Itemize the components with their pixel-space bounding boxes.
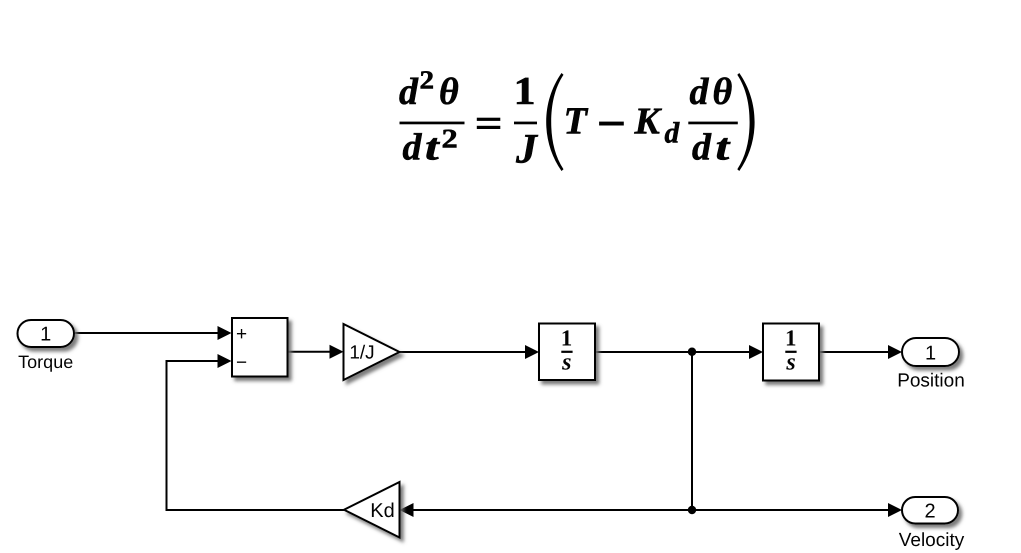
svg-text:1: 1 bbox=[514, 69, 536, 113]
wire junction to gain Kd bbox=[400, 503, 693, 517]
wire sum to gain 1/J bbox=[288, 345, 344, 359]
equals sign bbox=[477, 118, 501, 129]
svg-text:−: − bbox=[236, 352, 247, 373]
outport 2 block bbox=[902, 497, 958, 524]
svg-text:Kd: Kd bbox=[370, 500, 394, 522]
wire junction down bbox=[691, 352, 693, 510]
svg-text:s: s bbox=[561, 350, 571, 376]
svg-text:1: 1 bbox=[785, 326, 797, 351]
gain 1/J block bbox=[344, 324, 400, 380]
svg-text:2: 2 bbox=[442, 123, 458, 153]
sum block bbox=[232, 318, 288, 377]
integrator 2 block bbox=[763, 324, 819, 381]
svg-text:Torque: Torque bbox=[18, 352, 73, 372]
svg-text:+: + bbox=[236, 324, 247, 345]
svg-text:2: 2 bbox=[924, 501, 935, 523]
svg-text:d: d bbox=[403, 126, 423, 168]
wire integrator 2 to outport Position bbox=[819, 345, 902, 359]
wire gain 1/J to integrator 1 bbox=[400, 345, 540, 359]
wire integrator 1 to integrator 2 bbox=[595, 345, 763, 359]
svg-text:1: 1 bbox=[561, 326, 573, 351]
fraction 1/J bbox=[514, 69, 540, 172]
svg-text:1: 1 bbox=[925, 342, 936, 364]
svg-text:d: d bbox=[692, 126, 712, 168]
svg-text:Velocity: Velocity bbox=[899, 530, 965, 551]
wire gain Kd to sum minus bbox=[167, 354, 345, 510]
gain Kd block bbox=[344, 482, 400, 538]
svg-text:2: 2 bbox=[420, 66, 435, 95]
right parenthesis bbox=[737, 73, 754, 171]
outport 1 block bbox=[902, 338, 959, 366]
svg-text:d: d bbox=[665, 117, 681, 149]
svg-text:1: 1 bbox=[40, 324, 51, 346]
svg-text:θ: θ bbox=[439, 71, 459, 113]
svg-text:t: t bbox=[425, 126, 441, 168]
fraction d2theta/dt2 bbox=[399, 66, 465, 169]
svg-text:θ: θ bbox=[713, 71, 733, 113]
svg-text:T: T bbox=[564, 101, 589, 143]
wire junction to outport Velocity bbox=[692, 503, 902, 517]
junction dot top bbox=[688, 348, 696, 356]
equation d2theta/dt2 = (1/J)(T - Kd dtheta/dt) bbox=[399, 66, 755, 173]
junction dot bottom bbox=[688, 506, 696, 514]
K subscript d bbox=[634, 101, 681, 150]
fraction dtheta/dt bbox=[688, 71, 738, 168]
svg-text:d: d bbox=[690, 71, 710, 113]
svg-text:K: K bbox=[634, 101, 663, 143]
svg-text:t: t bbox=[716, 126, 732, 168]
minus sign bbox=[599, 122, 624, 126]
svg-text:s: s bbox=[785, 350, 795, 376]
inport 1 block bbox=[18, 320, 75, 347]
svg-text:J: J bbox=[515, 127, 539, 173]
svg-text:1/J: 1/J bbox=[349, 343, 374, 364]
svg-text:d: d bbox=[399, 71, 419, 113]
left parenthesis bbox=[546, 73, 563, 171]
wire input to sum plus bbox=[74, 326, 232, 340]
svg-text:Position: Position bbox=[897, 371, 965, 392]
integrator 1 block bbox=[539, 324, 595, 381]
